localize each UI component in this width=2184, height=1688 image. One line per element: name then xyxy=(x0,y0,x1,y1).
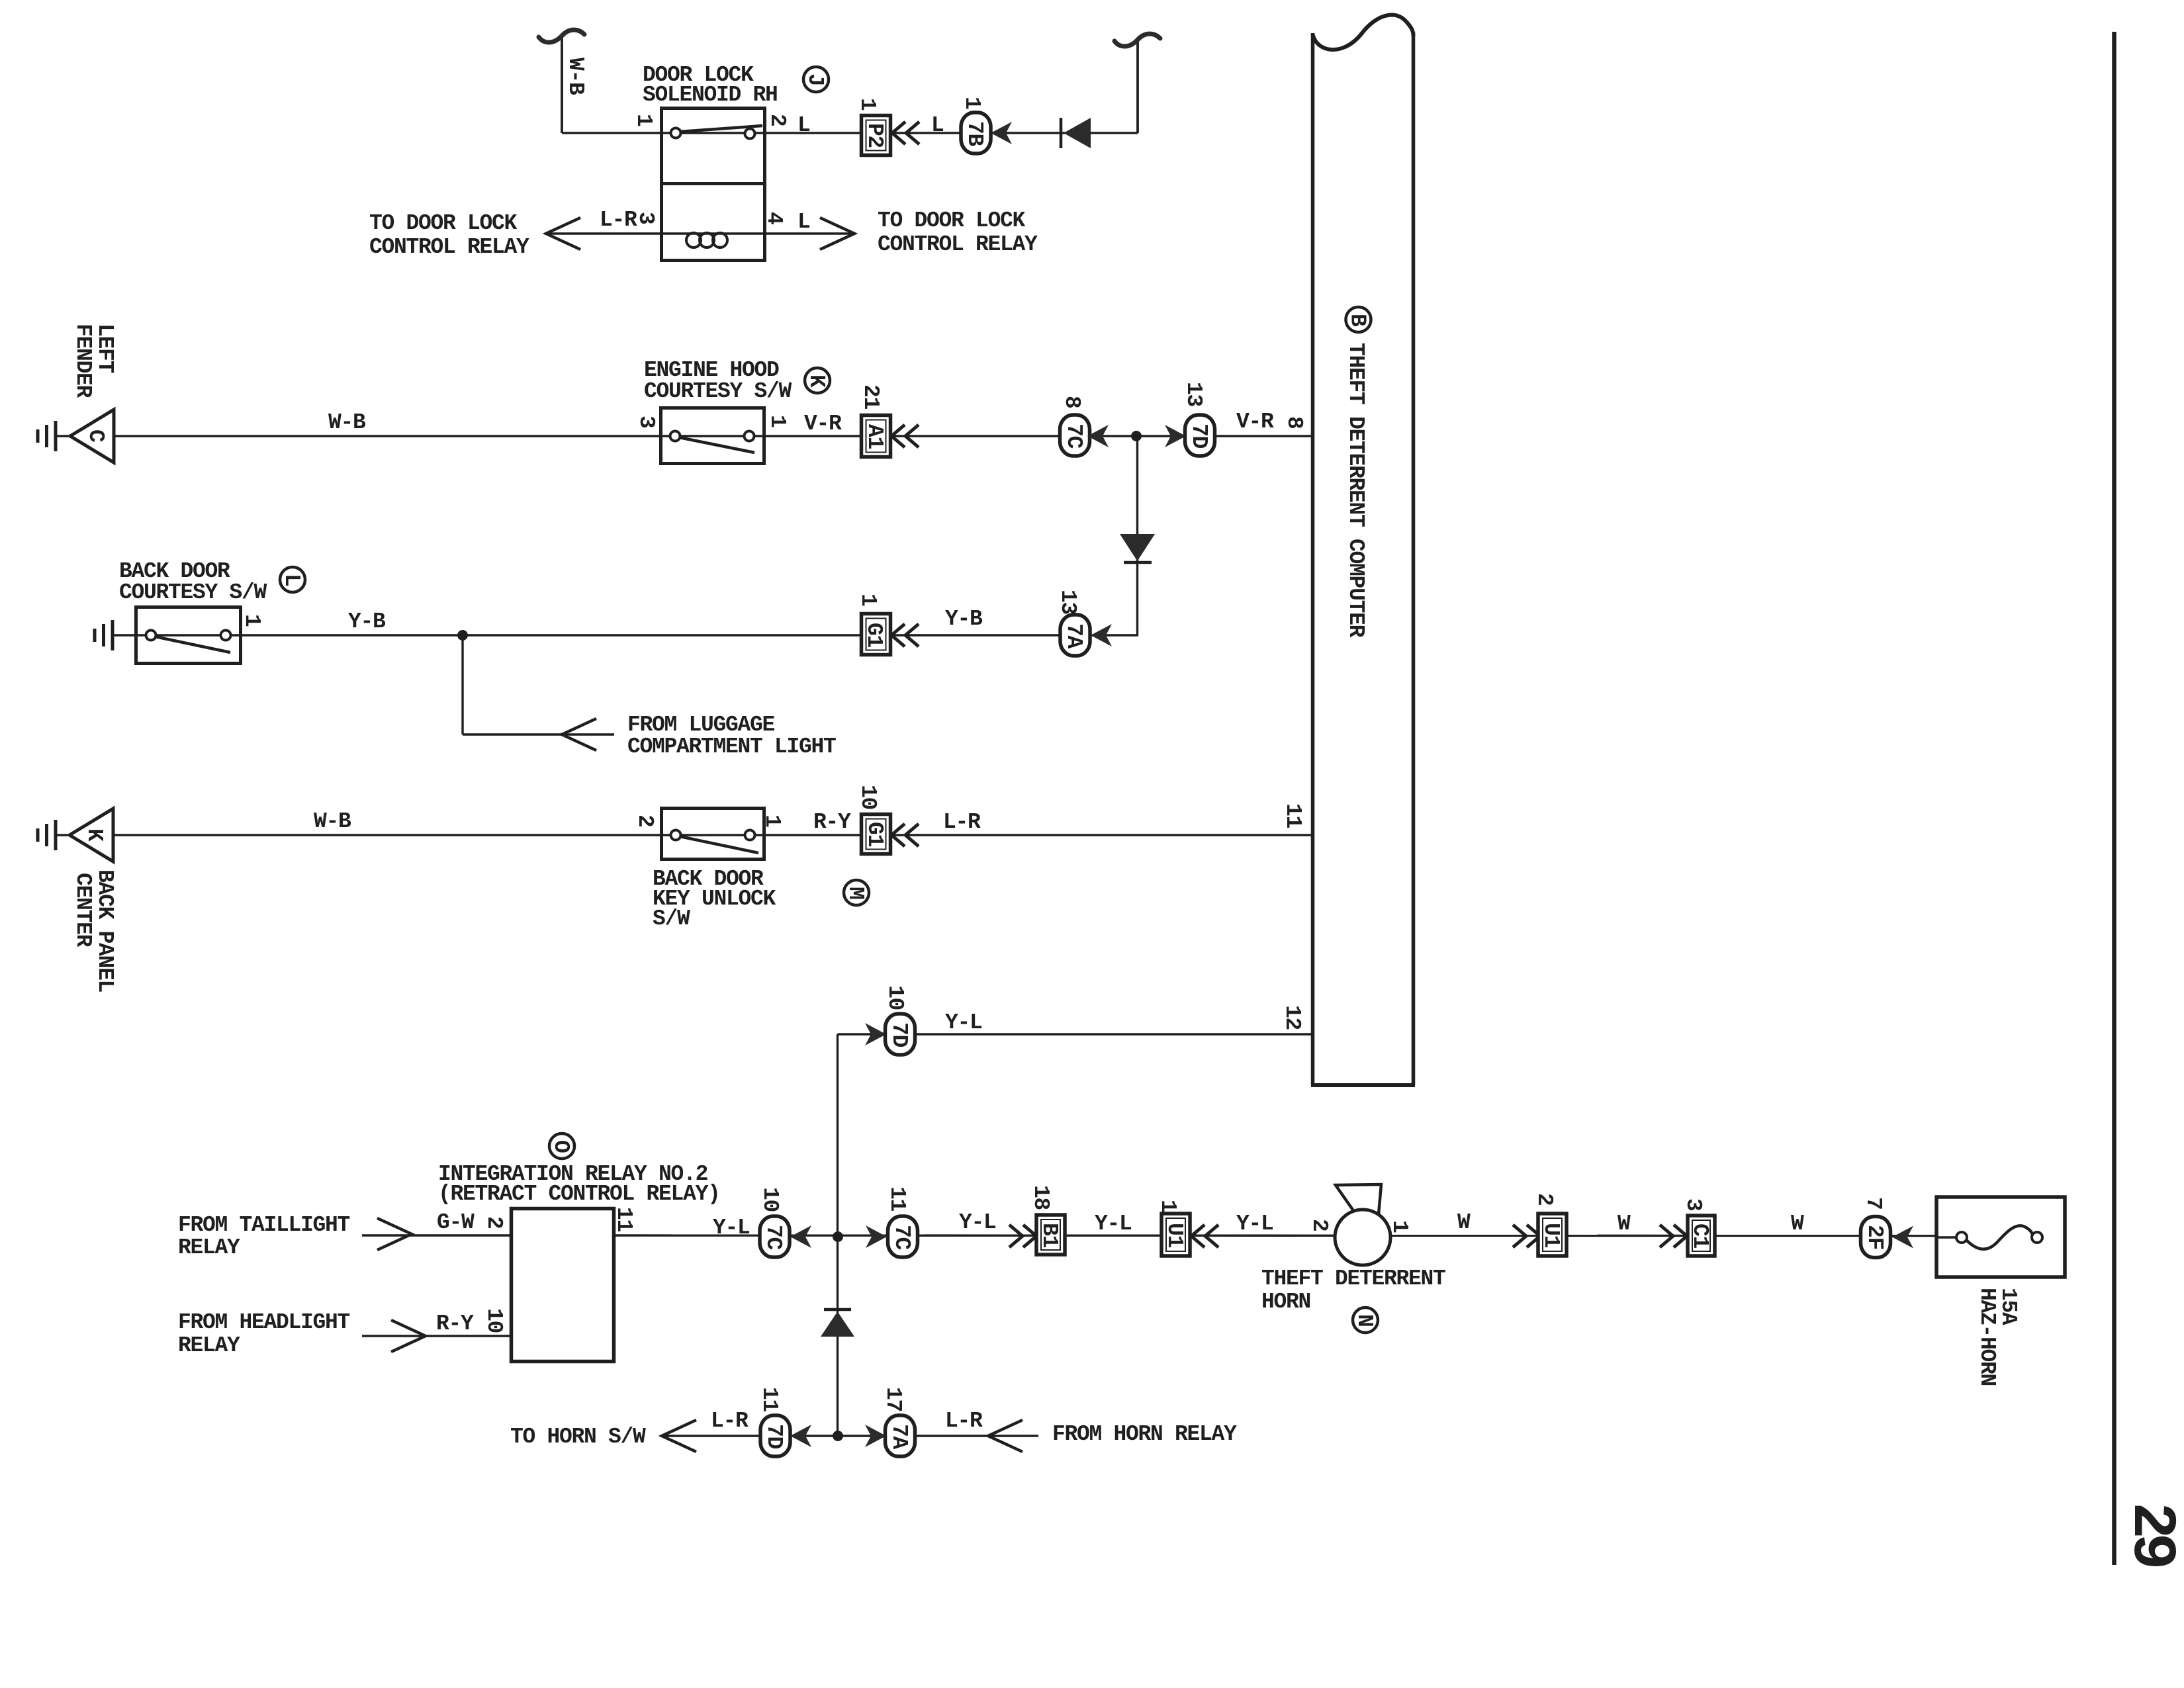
svg-text:R-Y: R-Y xyxy=(813,810,851,834)
connector 7D xyxy=(1185,415,1215,456)
svg-text:FROM HEADLIGHT: FROM HEADLIGHT xyxy=(178,1310,350,1335)
svg-text:3: 3 xyxy=(1681,1198,1706,1211)
svg-text:FROM TAILLIGHT: FROM TAILLIGHT xyxy=(178,1213,350,1237)
connector C1 xyxy=(1688,1216,1715,1256)
svg-text:HORN: HORN xyxy=(1261,1290,1310,1314)
svg-text:L-R: L-R xyxy=(943,810,981,834)
svg-text:Y-L: Y-L xyxy=(945,1010,982,1035)
wire break symbol (right) xyxy=(1115,34,1160,46)
svg-text:G1: G1 xyxy=(862,822,887,847)
wire vertical diode branch xyxy=(1136,436,1138,635)
ground (back door) xyxy=(95,620,113,650)
svg-text:1: 1 xyxy=(855,98,880,111)
diode (horn branch) xyxy=(821,1310,854,1337)
svg-text:1: 1 xyxy=(1387,1220,1412,1233)
circled J xyxy=(803,67,829,92)
svg-text:RELAY: RELAY xyxy=(178,1333,240,1358)
svg-text:W-B: W-B xyxy=(328,410,366,435)
svg-text:U1: U1 xyxy=(1162,1223,1187,1248)
circled L xyxy=(279,567,305,592)
svg-text:L: L xyxy=(931,113,944,138)
chevrons into U1 xyxy=(1513,1225,1540,1247)
chevrons into G1 xyxy=(891,824,919,846)
arrow from horn relay xyxy=(988,1420,1023,1452)
svg-text:4: 4 xyxy=(762,212,786,224)
svg-text:K: K xyxy=(804,375,829,388)
svg-text:7B: 7B xyxy=(962,121,987,147)
svg-text:THEFT DETERRENT: THEFT DETERRENT xyxy=(1261,1266,1445,1291)
theft deterrent computer box B xyxy=(1311,15,1415,1085)
svg-text:2: 2 xyxy=(633,815,657,827)
solenoid switch terminals and blade xyxy=(662,126,765,139)
arrow into 7B xyxy=(991,122,1012,144)
arrow to door lock control relay (left) xyxy=(546,218,580,249)
junction Y-L xyxy=(833,1231,843,1242)
solenoid coil xyxy=(662,233,765,247)
wire G-W from taillight relay xyxy=(362,1234,511,1236)
connector A1 xyxy=(862,416,891,457)
svg-text:Y-L: Y-L xyxy=(713,1216,750,1240)
svg-text:1: 1 xyxy=(760,815,784,827)
svg-text:7: 7 xyxy=(1861,1197,1886,1210)
connector G1 (second) xyxy=(862,815,891,854)
svg-text:7A: 7A xyxy=(1062,623,1086,649)
back door switch terminals and blade xyxy=(136,631,242,653)
svg-text:COURTESY S/W: COURTESY S/W xyxy=(119,580,267,605)
svg-text:21: 21 xyxy=(858,384,883,410)
wire Y-L / W horn row xyxy=(614,1234,1936,1237)
wire W-B / R-Y / L-R row to computer pin 11 xyxy=(56,834,1311,836)
ground triangle K (back panel) xyxy=(69,809,113,862)
arrow from luggage compartment light xyxy=(562,719,596,750)
circled K xyxy=(804,368,830,393)
svg-text:1: 1 xyxy=(631,114,656,126)
connector 7A (horn relay) xyxy=(886,1415,915,1456)
svg-text:7D: 7D xyxy=(1187,423,1211,449)
wire branch to luggage light xyxy=(461,635,463,734)
svg-text:10: 10 xyxy=(482,1308,506,1333)
back door courtesy switch box xyxy=(136,607,241,664)
fuse 15A HAZ-HORN xyxy=(1936,1197,2065,1277)
svg-text:N: N xyxy=(1352,1314,1377,1327)
svg-text:13: 13 xyxy=(1056,590,1080,615)
circled B (computer) xyxy=(1345,307,1371,332)
svg-text:TO DOOR LOCK: TO DOOR LOCK xyxy=(878,208,1026,233)
svg-text:V-R: V-R xyxy=(804,412,842,436)
svg-text:G-W: G-W xyxy=(437,1210,475,1235)
svg-text:12: 12 xyxy=(1280,1005,1304,1030)
chevrons into C1 xyxy=(1660,1225,1687,1247)
theft deterrent horn xyxy=(1335,1184,1390,1265)
chevrons into P2 xyxy=(892,122,919,144)
svg-text:S/W: S/W xyxy=(653,907,690,931)
svg-text:V-R: V-R xyxy=(1236,410,1274,434)
wire break symbol (left) xyxy=(539,30,584,42)
svg-text:7C: 7C xyxy=(889,1225,914,1250)
chevrons into B1 xyxy=(1009,1225,1036,1247)
svg-text:W: W xyxy=(1617,1212,1631,1236)
wire Y-B row xyxy=(113,634,1138,636)
wire vertical to break (left) xyxy=(561,36,563,133)
wire L-R / L row (solenoid coil) xyxy=(546,232,854,234)
svg-text:R-Y: R-Y xyxy=(436,1311,474,1336)
svg-text:2: 2 xyxy=(1307,1219,1332,1231)
svg-text:L-R: L-R xyxy=(945,1409,983,1433)
connector U1 xyxy=(1161,1214,1190,1256)
arrow into 7D xyxy=(790,1425,811,1447)
svg-text:18: 18 xyxy=(1028,1185,1053,1210)
svg-text:TO DOOR LOCK: TO DOOR LOCK xyxy=(369,211,518,236)
wire to luggage light arrow xyxy=(463,733,614,735)
connector B1 xyxy=(1036,1215,1065,1255)
svg-text:Y-L: Y-L xyxy=(959,1210,996,1235)
arrow into 7C (right) xyxy=(866,1225,887,1248)
svg-text:7C: 7C xyxy=(761,1225,786,1250)
svg-text:COMPARTMENT LIGHT: COMPARTMENT LIGHT xyxy=(627,734,836,759)
svg-text:L-R: L-R xyxy=(600,208,637,232)
svg-text:C: C xyxy=(83,429,108,442)
svg-text:CENTER: CENTER xyxy=(71,873,95,948)
back door key unlock switch box xyxy=(662,809,764,860)
diode (V-R to Y-B branch) xyxy=(1120,534,1155,562)
wire L-R horn switch row xyxy=(662,1435,1038,1437)
svg-text:L: L xyxy=(797,210,810,234)
svg-text:L: L xyxy=(797,113,810,138)
svg-text:3: 3 xyxy=(633,212,658,224)
svg-text:B1: B1 xyxy=(1037,1223,1062,1248)
svg-text:8: 8 xyxy=(1060,396,1084,408)
ground (back panel center) xyxy=(38,820,56,850)
connector 7D (horn s/w) xyxy=(760,1415,790,1456)
junction Y-B xyxy=(457,630,468,641)
svg-text:CONTROL RELAY: CONTROL RELAY xyxy=(878,232,1038,257)
arrow into 7A xyxy=(1091,624,1112,646)
connector G1 xyxy=(862,614,891,655)
svg-text:TO HORN S/W: TO HORN S/W xyxy=(510,1425,646,1449)
svg-text:CONTROL RELAY: CONTROL RELAY xyxy=(369,235,529,259)
svg-text:11: 11 xyxy=(885,1186,909,1212)
svg-text:(RETRACT CONTROL RELAY): (RETRACT CONTROL RELAY) xyxy=(438,1182,720,1206)
svg-text:2: 2 xyxy=(482,1216,506,1229)
connector 7C xyxy=(1060,415,1090,456)
arrow into 7D (Y-L) xyxy=(865,1023,886,1045)
chevrons into A1 xyxy=(891,425,919,447)
svg-text:COURTESY S/W: COURTESY S/W xyxy=(644,379,792,404)
svg-text:SOLENOID RH: SOLENOID RH xyxy=(643,83,778,107)
svg-text:RELAY: RELAY xyxy=(178,1235,240,1260)
wire Y-L row to computer pin 12 xyxy=(838,1033,1312,1035)
svg-text:1: 1 xyxy=(240,614,264,627)
svg-text:8: 8 xyxy=(1282,416,1306,429)
connector 7B xyxy=(961,112,991,154)
wire R-Y from headlight relay xyxy=(362,1335,511,1337)
connector U1 (second) xyxy=(1538,1214,1567,1256)
arrow from taillight relay xyxy=(377,1218,412,1250)
connector 2F xyxy=(1861,1217,1891,1258)
wire W-B/L row (door lock solenoid) xyxy=(562,132,1138,134)
svg-text:A1: A1 xyxy=(862,424,887,449)
svg-text:THEFT DETERRENT COMPUTER: THEFT DETERRENT COMPUTER xyxy=(1343,343,1368,638)
connector 7C (horn row right) xyxy=(888,1216,918,1257)
svg-text:Y-B: Y-B xyxy=(348,609,386,634)
arrow from headlight relay xyxy=(391,1320,426,1352)
junction V-R xyxy=(1131,431,1142,441)
svg-text:L-R: L-R xyxy=(711,1409,749,1433)
svg-text:W: W xyxy=(1457,1210,1471,1235)
svg-text:2: 2 xyxy=(1532,1193,1557,1206)
svg-text:Y-L: Y-L xyxy=(1236,1212,1273,1236)
connector P2 xyxy=(862,116,891,155)
svg-text:13: 13 xyxy=(1181,382,1206,407)
svg-text:2: 2 xyxy=(765,114,790,126)
arrow into 7D xyxy=(1165,425,1186,447)
arrow into 7C xyxy=(1087,425,1109,447)
chevrons into U1 xyxy=(1191,1225,1218,1247)
svg-text:17: 17 xyxy=(881,1387,905,1411)
svg-text:FROM LUGGAGE: FROM LUGGAGE xyxy=(627,713,775,737)
svg-text:W-B: W-B xyxy=(563,58,588,95)
svg-text:10: 10 xyxy=(758,1187,782,1212)
arrow into 7A xyxy=(865,1425,886,1447)
circled N xyxy=(1352,1308,1378,1333)
engine hood courtesy switch box xyxy=(661,408,764,464)
circled O xyxy=(549,1133,574,1159)
svg-text:U1: U1 xyxy=(1539,1223,1563,1248)
svg-text:7A: 7A xyxy=(887,1424,911,1450)
svg-text:B: B xyxy=(1345,314,1370,327)
wire W-B / V-R row to computer pin 8 xyxy=(56,435,1312,437)
svg-text:7C: 7C xyxy=(1062,423,1086,449)
connector 7C (horn row left) xyxy=(760,1216,790,1257)
ground (left fender) xyxy=(38,421,56,451)
wire vertical to break (right) xyxy=(1136,40,1139,133)
svg-text:1: 1 xyxy=(960,97,984,109)
svg-text:W-B: W-B xyxy=(314,809,351,834)
svg-text:P2: P2 xyxy=(862,123,887,148)
arrow to horn s/w xyxy=(662,1420,696,1452)
svg-text:BACK PANEL: BACK PANEL xyxy=(93,869,117,993)
arrow into 7C xyxy=(790,1225,811,1248)
svg-text:O: O xyxy=(549,1140,573,1153)
door lock solenoid RH box (coil section) xyxy=(662,184,765,261)
svg-text:7D: 7D xyxy=(887,1022,911,1047)
svg-text:3: 3 xyxy=(634,416,659,428)
svg-text:11: 11 xyxy=(1281,803,1305,828)
svg-text:1: 1 xyxy=(1156,1200,1180,1212)
page border line xyxy=(2112,32,2116,1565)
svg-text:LEFT: LEFT xyxy=(93,324,117,373)
svg-text:10: 10 xyxy=(883,985,907,1010)
svg-text:10: 10 xyxy=(856,785,880,809)
connector 7D (Y-L) xyxy=(886,1014,915,1055)
svg-text:Y-B: Y-B xyxy=(945,607,983,631)
svg-text:K: K xyxy=(82,828,107,842)
svg-text:11: 11 xyxy=(757,1387,782,1412)
chevrons into G1 xyxy=(891,624,919,646)
svg-text:2F: 2F xyxy=(1862,1225,1887,1249)
svg-text:29: 29 xyxy=(2116,1502,2184,1567)
svg-text:7D: 7D xyxy=(762,1424,786,1449)
engine hood switch terminals and blade xyxy=(661,431,765,453)
svg-text:M: M xyxy=(843,887,868,899)
svg-text:1: 1 xyxy=(856,594,880,606)
svg-text:G1: G1 xyxy=(862,623,886,648)
svg-text:L: L xyxy=(279,574,304,586)
arrow to door lock control relay (right) xyxy=(820,218,854,249)
diode (door lock row) xyxy=(1061,118,1091,148)
svg-text:J: J xyxy=(803,73,827,86)
arrow into 2F xyxy=(1892,1226,1913,1249)
svg-text:1: 1 xyxy=(765,415,790,427)
svg-text:C1: C1 xyxy=(1688,1223,1712,1249)
svg-text:Y-L: Y-L xyxy=(1095,1212,1132,1236)
integration relay no.2 box xyxy=(512,1209,614,1362)
svg-text:FROM HORN RELAY: FROM HORN RELAY xyxy=(1052,1422,1237,1446)
door lock solenoid RH box (switch section) xyxy=(662,109,765,184)
junction L-R xyxy=(833,1431,843,1441)
wire vertical Y-L to horn branch xyxy=(837,1034,839,1436)
svg-text:W: W xyxy=(1791,1212,1804,1236)
svg-text:HAZ-HORN: HAZ-HORN xyxy=(1975,1288,1999,1386)
circled M xyxy=(843,880,869,905)
svg-text:FENDER: FENDER xyxy=(71,324,95,398)
svg-text:11: 11 xyxy=(612,1207,636,1232)
key unlock switch terminals and blade xyxy=(662,830,764,854)
connector 7A xyxy=(1060,615,1090,656)
ground triangle C (left fender) xyxy=(70,410,114,463)
